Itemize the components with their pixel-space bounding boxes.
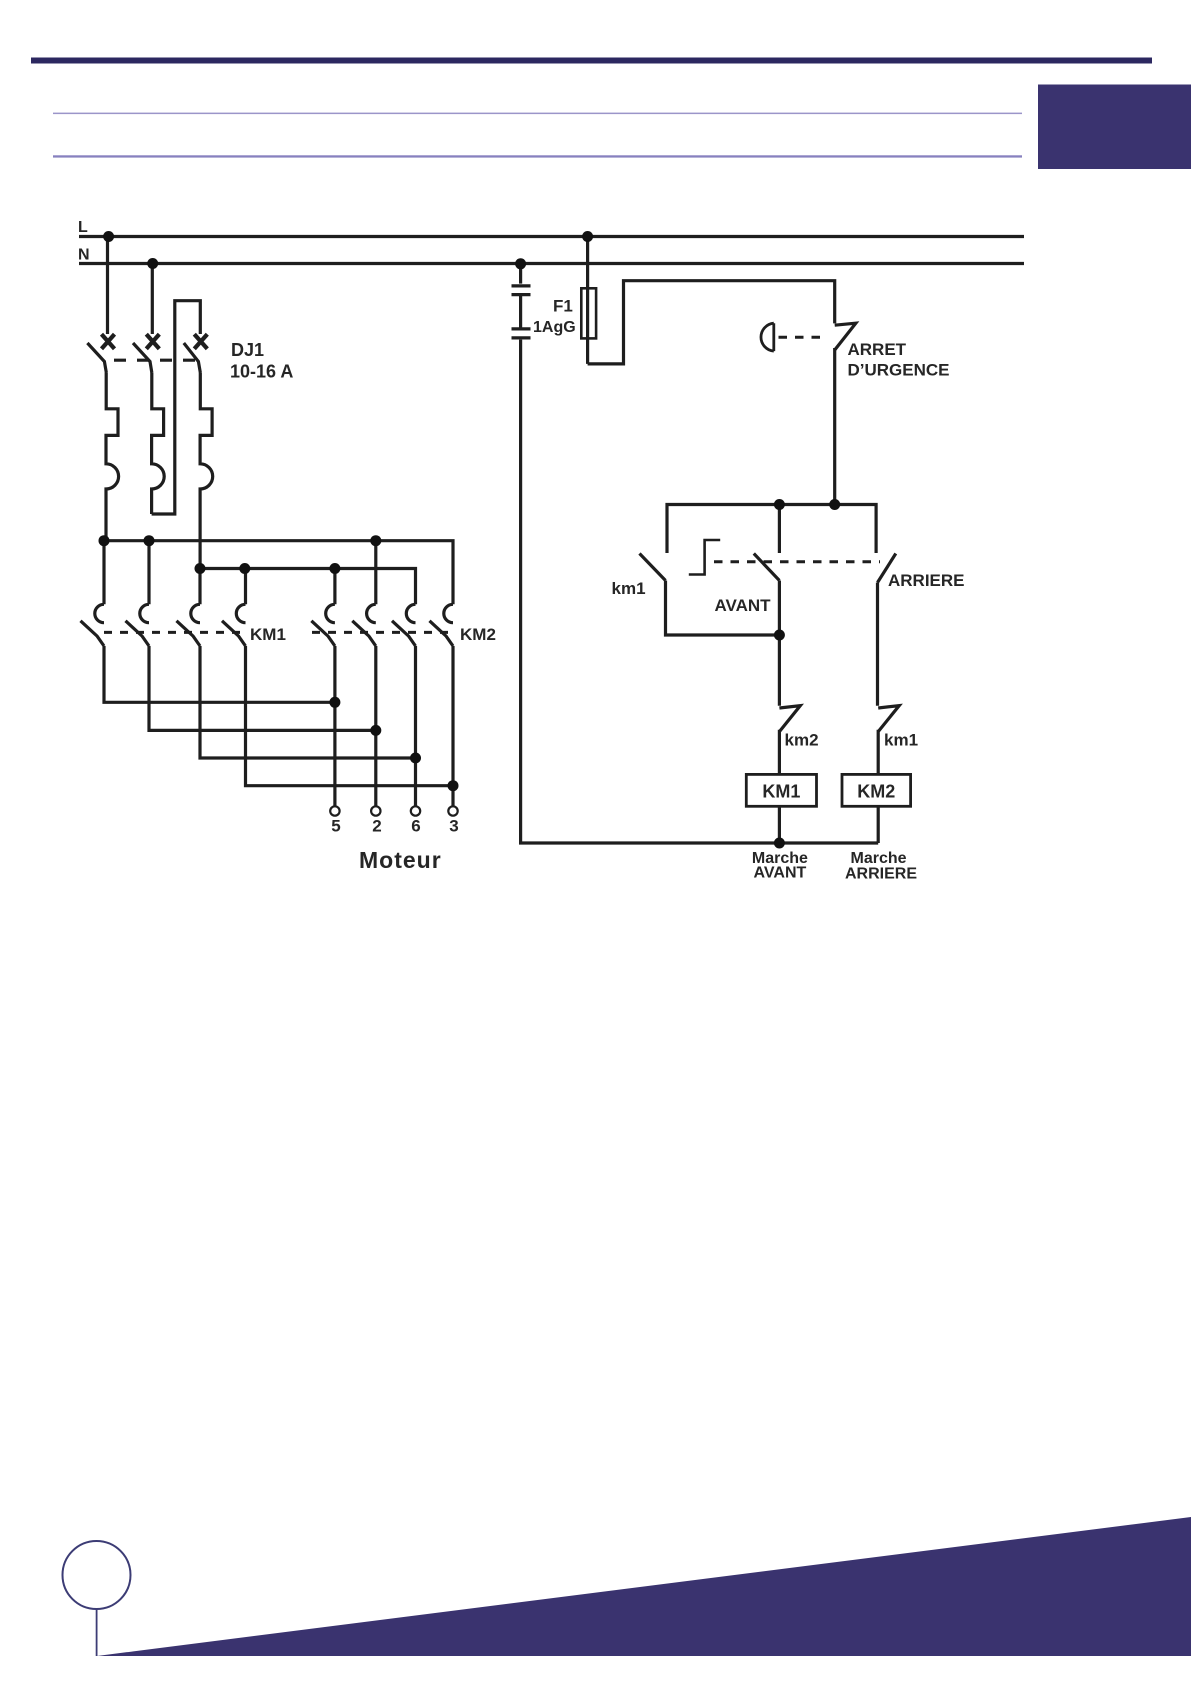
contact km1 NO <box>640 554 780 636</box>
junction node marche avant <box>774 838 785 849</box>
control linkage dashed <box>714 560 880 563</box>
motor terminal 6 <box>411 806 420 815</box>
wire emergency stop to control rail <box>833 348 836 505</box>
motor terminal 3 <box>448 806 457 815</box>
svg-text:ARRIERE: ARRIERE <box>888 571 965 590</box>
wire F1 feed <box>586 237 589 364</box>
contact km1 NC right <box>878 706 899 775</box>
contactor KM2 pole1 <box>311 569 335 807</box>
breaker DJ1 pole1 blade <box>87 343 106 373</box>
svg-text:KM1: KM1 <box>250 625 286 644</box>
fuse F1 body <box>581 288 596 338</box>
header thin rule 1 <box>53 113 1022 115</box>
svg-text:1AgG: 1AgG <box>533 319 576 336</box>
breaker DJ1 pole2 blade <box>133 343 152 373</box>
emergency stop button head <box>761 323 774 351</box>
junction node L1 <box>103 231 114 242</box>
AVANT latch symbol <box>689 540 720 575</box>
breaker DJ1 pole1 contact X <box>102 334 115 349</box>
contactor KM1 pole1 <box>81 541 335 703</box>
contactor KM1 pole4 <box>222 569 453 786</box>
svg-text:N: N <box>78 247 90 264</box>
junction node avant bottom <box>774 630 785 641</box>
wire rail L <box>79 235 1024 238</box>
junction node motor wire 6 <box>410 753 421 764</box>
svg-text:10-16 A: 10-16 A <box>230 362 293 382</box>
breaker DJ1 linkage dashed <box>114 359 196 362</box>
junction node motor wire 2 <box>370 725 381 736</box>
svg-text:2: 2 <box>372 817 381 836</box>
junction node bus1 b <box>144 535 155 546</box>
junction node bus1 a <box>99 535 110 546</box>
footer circle stem <box>96 1609 98 1656</box>
wire rail N <box>79 262 1024 265</box>
junction node bus2 b <box>239 563 250 574</box>
wire coil KM1 to bottom <box>778 806 781 843</box>
breaker DJ1 pole1 thermal element <box>106 373 119 541</box>
svg-text:3: 3 <box>449 817 458 836</box>
push button ARRIERE contact <box>878 554 896 706</box>
header thin rule 2 <box>53 155 1022 157</box>
svg-text:F1: F1 <box>553 297 573 316</box>
svg-text:Marche: Marche <box>850 850 906 867</box>
isolator contact under N <box>512 264 531 338</box>
footer navy wedge <box>97 1517 1191 1656</box>
wire bus2 <box>200 569 416 605</box>
junction node motor wire 5 <box>329 697 340 708</box>
contactor KM2 pole3 <box>392 604 416 806</box>
svg-text:KM2: KM2 <box>460 625 496 644</box>
emergency stop NC contact <box>835 323 856 350</box>
svg-text:Moteur: Moteur <box>359 847 442 873</box>
svg-text:AVANT: AVANT <box>754 865 807 882</box>
junction node bus1 c <box>370 535 381 546</box>
svg-text:D’URGENCE: D’URGENCE <box>848 361 950 380</box>
motor terminal 5 <box>330 806 339 815</box>
header top bar <box>31 58 1152 64</box>
motor terminal 2 <box>371 806 380 815</box>
junction node L2 <box>582 231 593 242</box>
svg-text:km2: km2 <box>785 731 819 750</box>
contactor KM1 linkage dashed <box>104 631 247 634</box>
contactor KM1 pole2 <box>126 541 376 731</box>
coil KM1 box <box>746 774 816 806</box>
junction node N2 <box>515 258 526 269</box>
svg-text:ARRET: ARRET <box>848 340 907 359</box>
svg-text:km1: km1 <box>612 579 646 598</box>
breaker DJ1 pole2 thermal element <box>152 373 165 515</box>
breaker DJ1 pole2 contact X <box>146 334 159 349</box>
footer circle ornament <box>63 1541 131 1609</box>
svg-text:KM1: KM1 <box>762 782 800 802</box>
contact km2 NC <box>779 706 800 775</box>
contactor KM2 pole4 <box>430 604 454 806</box>
junction node motor wire 3 <box>448 780 459 791</box>
wire bus1 <box>104 541 453 605</box>
breaker DJ1 pole3 blade <box>184 343 201 373</box>
breaker DJ1 pole3 thermal element <box>200 373 213 569</box>
contactor KM1 pole3 <box>177 569 416 759</box>
junction node control rail b <box>829 499 840 510</box>
svg-text:6: 6 <box>411 817 420 836</box>
contactor KM2 pole2 <box>352 541 376 807</box>
svg-text:AVANT: AVANT <box>715 596 772 615</box>
breaker DJ1 pole3 contact X <box>194 334 207 349</box>
junction node bus2 c <box>329 563 340 574</box>
push button AVANT contact <box>754 505 780 706</box>
coil KM2 box <box>842 774 911 806</box>
wire DJ1 pole2 feed <box>151 264 154 335</box>
junction node control rail a <box>774 499 785 510</box>
svg-text:km1: km1 <box>884 731 918 750</box>
wire F1 to emergency stop <box>588 281 835 364</box>
svg-text:5: 5 <box>331 817 340 836</box>
junction node N1 <box>147 258 158 269</box>
wire pole2 to pole3 loop <box>152 301 201 514</box>
junction node bus2 a <box>195 563 206 574</box>
contactor KM2 linkage dashed <box>312 631 456 634</box>
header navy block <box>1038 85 1191 170</box>
svg-text:KM2: KM2 <box>857 782 895 802</box>
emergency stop linkage dashed <box>779 336 829 339</box>
wire control top rail <box>667 505 876 554</box>
wire coil KM2 to bottom <box>877 806 880 843</box>
svg-text:ARRIERE: ARRIERE <box>845 866 917 883</box>
svg-text:L: L <box>78 219 88 236</box>
svg-text:DJ1: DJ1 <box>231 340 264 360</box>
wire control left return <box>521 340 879 843</box>
wire DJ1 pole1 feed <box>106 237 109 335</box>
